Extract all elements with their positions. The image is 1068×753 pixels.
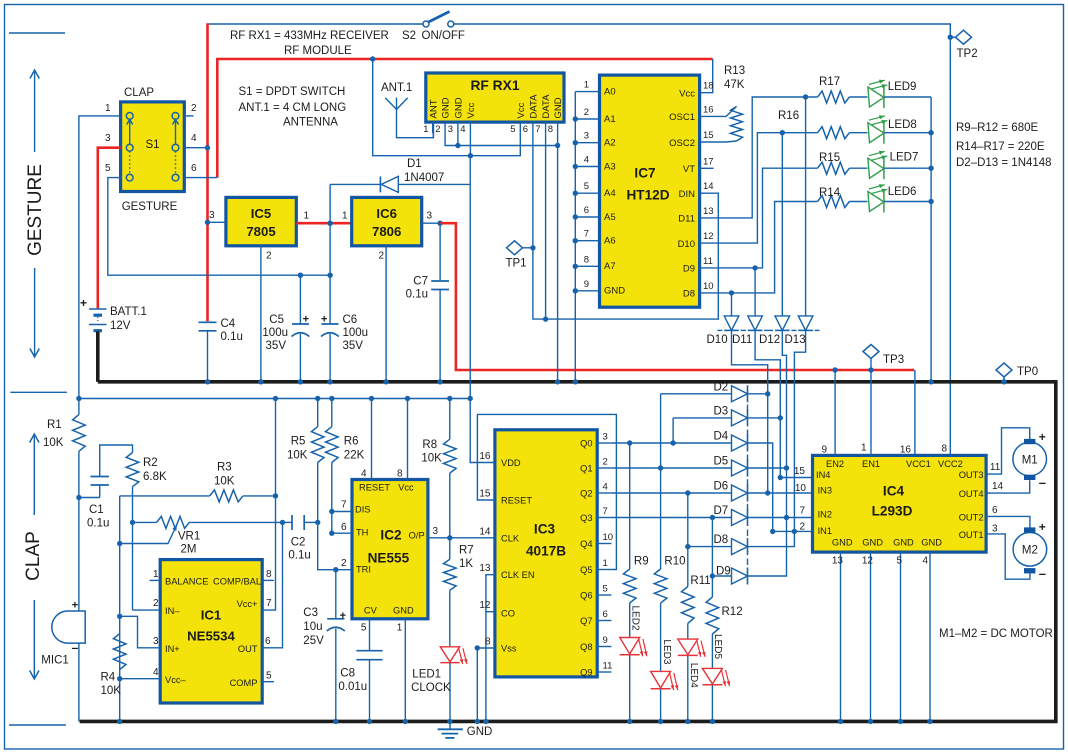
junction rail R5 bbox=[315, 396, 320, 401]
svg-text:22K: 22K bbox=[344, 450, 365, 462]
IC5 pin 3 stub bbox=[208, 221, 226, 223]
svg-text:OSC2: OSC2 bbox=[669, 138, 695, 149]
S1 pin 2 stub bbox=[184, 115, 193, 117]
svg-text:D13: D13 bbox=[785, 334, 806, 346]
IC4 gnd pin 4 bbox=[929, 552, 931, 721]
resistor R16 220E bbox=[818, 127, 850, 139]
svg-text:GESTURE: GESTURE bbox=[122, 201, 178, 213]
wire mic bottom to ground bus bbox=[78, 643, 80, 721]
svg-text:D2: D2 bbox=[714, 381, 729, 393]
svg-text:O/P: O/P bbox=[409, 531, 425, 541]
svg-text:ANTENNA: ANTENNA bbox=[283, 117, 338, 129]
junction D12 column top bbox=[780, 130, 785, 135]
svg-text:7806: 7806 bbox=[372, 224, 401, 239]
junction LED bus on black line bbox=[928, 379, 933, 384]
clap down arrow bbox=[33, 600, 35, 677]
LED3 red bbox=[651, 671, 671, 688]
svg-text:RESET: RESET bbox=[359, 482, 390, 492]
svg-text:R5: R5 bbox=[291, 436, 306, 448]
svg-text:A5: A5 bbox=[604, 212, 616, 223]
svg-text:11: 11 bbox=[990, 462, 1001, 473]
svg-text:7805: 7805 bbox=[246, 224, 275, 239]
svg-text:10: 10 bbox=[795, 483, 807, 494]
junction IC6 pin2 ground bbox=[383, 379, 388, 384]
wire DATA pin6 down to TP1 corner bbox=[533, 133, 718, 319]
clap up arrow bbox=[33, 436, 35, 515]
svg-text:2: 2 bbox=[266, 251, 272, 262]
junction D9 feed bbox=[710, 573, 715, 578]
IC2 pin 5 CV / capacitor C8 0.01u bbox=[369, 619, 371, 651]
svg-text:R15: R15 bbox=[819, 152, 840, 164]
svg-text:C2: C2 bbox=[291, 537, 306, 549]
diode D13 1N4148 bbox=[805, 97, 807, 316]
svg-text:7: 7 bbox=[603, 506, 608, 517]
svg-text:VR1: VR1 bbox=[178, 531, 200, 543]
wire LED cathode bus to black line bbox=[930, 97, 932, 382]
wire RF RX1 Vcc bus pins 4-5 bbox=[469, 133, 471, 156]
S1 pin 1 wire to lower rail bbox=[79, 116, 121, 399]
svg-text:GND: GND bbox=[393, 605, 414, 615]
svg-text:2: 2 bbox=[603, 457, 608, 468]
svg-text:LED3: LED3 bbox=[661, 639, 672, 664]
svg-text:R1: R1 bbox=[47, 419, 62, 431]
wire D2 feed from Q1 bbox=[660, 394, 662, 468]
junction EN1 / TP3 on red rail bbox=[868, 367, 873, 372]
svg-text:4: 4 bbox=[460, 124, 465, 135]
svg-text:5: 5 bbox=[105, 163, 111, 174]
svg-text:4: 4 bbox=[361, 469, 367, 480]
svg-text:7: 7 bbox=[341, 500, 347, 511]
svg-text:IN–: IN– bbox=[165, 606, 180, 616]
junction A-bus pin 9 bbox=[573, 288, 578, 293]
dashes of D2-D9 cathode bus bbox=[747, 405, 749, 412]
svg-text:D10: D10 bbox=[707, 334, 728, 346]
svg-text:C3: C3 bbox=[303, 607, 318, 619]
svg-text:D4: D4 bbox=[714, 431, 729, 443]
junction IC6 out node bbox=[437, 221, 442, 226]
svg-text:DATA: DATA bbox=[529, 94, 540, 119]
wire Q2 row to D6 and IN3 bbox=[611, 492, 731, 494]
svg-text:C6: C6 bbox=[343, 314, 358, 326]
svg-text:L293D: L293D bbox=[872, 504, 913, 519]
svg-text:GND: GND bbox=[604, 286, 625, 297]
wire red 6V to motor rail bbox=[440, 223, 914, 370]
svg-text:10u: 10u bbox=[303, 621, 322, 633]
LED7 bbox=[849, 167, 867, 169]
svg-text:Q4: Q4 bbox=[580, 539, 592, 549]
wire HT12D Vcc to 5V rail bbox=[700, 59, 713, 93]
capacitor C5 100u 35V electrolytic bbox=[299, 275, 301, 324]
svg-text:5: 5 bbox=[603, 584, 608, 595]
svg-text:R14–R17 = 220E: R14–R17 = 220E bbox=[956, 141, 1045, 153]
svg-text:ANT.1 = 4 CM LONG: ANT.1 = 4 CM LONG bbox=[239, 102, 347, 114]
junction A-bus pin 7 bbox=[573, 238, 578, 243]
IC2 pin 3 O/P wire to CLK bbox=[428, 537, 495, 539]
svg-text:COMP/BAL: COMP/BAL bbox=[213, 577, 261, 587]
svg-text:2: 2 bbox=[191, 103, 197, 114]
capacitor C1 0.1u bbox=[79, 497, 100, 499]
svg-text:COMP: COMP bbox=[230, 678, 258, 688]
IC1 pin 8 stub bbox=[262, 579, 274, 581]
svg-text:GND: GND bbox=[921, 537, 942, 547]
wire S2 to right edge and down to IC4 VCC2 bbox=[454, 24, 951, 455]
junction Q2 / R11 column bbox=[685, 490, 690, 495]
svg-text:10: 10 bbox=[603, 532, 614, 543]
wire R3/feedback column down to wiper node bbox=[119, 496, 121, 722]
junction LED3 ground bbox=[658, 719, 663, 724]
svg-text:A4: A4 bbox=[604, 188, 616, 199]
LED2 red bbox=[620, 638, 640, 655]
junction rail IC2 pin8 bbox=[405, 396, 410, 401]
svg-text:4017B: 4017B bbox=[526, 544, 566, 559]
svg-text:1: 1 bbox=[153, 569, 159, 580]
svg-text:4: 4 bbox=[922, 556, 928, 567]
svg-text:6: 6 bbox=[265, 636, 271, 647]
separator line bottom-left bbox=[9, 724, 66, 726]
svg-text:D5: D5 bbox=[714, 456, 729, 468]
IC5 pin 1 red link to IC6 bbox=[296, 222, 351, 225]
IC2 pin 4 wire to rail bbox=[371, 399, 373, 480]
wire RF RX1 Vcc bus to 5V rail bbox=[373, 59, 471, 156]
svg-text:1: 1 bbox=[105, 103, 111, 114]
LED8 bbox=[849, 132, 867, 134]
junction LED7 on bus bbox=[928, 166, 933, 171]
battery negative thick black wire bbox=[96, 332, 100, 382]
svg-text:14: 14 bbox=[479, 526, 491, 537]
junction D5 column on IN2 row bbox=[784, 515, 789, 520]
svg-text:15: 15 bbox=[703, 130, 714, 141]
diode D4 1N4148 bbox=[732, 435, 748, 451]
LED6 bbox=[849, 201, 867, 203]
svg-text:BATT.1: BATT.1 bbox=[110, 306, 147, 318]
svg-text:A1: A1 bbox=[604, 114, 616, 125]
capacitor C4 0.1u bbox=[199, 321, 217, 323]
svg-text:LED9: LED9 bbox=[888, 81, 917, 93]
IC2 pin 1 GND wire bbox=[404, 619, 406, 722]
svg-text:R13: R13 bbox=[724, 65, 745, 77]
diode D6 1N4148 bbox=[732, 485, 748, 501]
S1 pin 4 wire to 12V rail bbox=[184, 147, 207, 149]
IC4 gnd pin 13 bbox=[840, 552, 842, 721]
svg-text:–: – bbox=[1039, 566, 1046, 581]
wire address bus to ground bbox=[574, 92, 576, 382]
diode D11 1N4148 bbox=[754, 268, 756, 316]
resistor R8 10K bbox=[449, 399, 451, 440]
svg-text:R3: R3 bbox=[217, 462, 232, 474]
svg-text:14: 14 bbox=[703, 181, 714, 192]
svg-text:8: 8 bbox=[397, 469, 403, 480]
gesture up arrow bbox=[34, 72, 36, 152]
HT12D pin 12 D10 wire to LED8 row bbox=[700, 133, 818, 243]
svg-text:R4: R4 bbox=[101, 672, 116, 684]
svg-text:3: 3 bbox=[433, 526, 439, 537]
junction R5/C2 node bbox=[315, 520, 320, 525]
resistor R2 6.8K bbox=[126, 453, 139, 487]
junction D5 / IN2 column bbox=[784, 465, 789, 470]
wire Q3 row to D7 and IN2 bbox=[611, 517, 731, 519]
svg-text:ANT.1: ANT.1 bbox=[381, 82, 412, 94]
IC4 pin 3 OUT1 wire to M2- bbox=[986, 534, 1030, 579]
potentiometer VR1 2M bbox=[133, 521, 157, 523]
S1 left throw arrow bbox=[129, 121, 131, 145]
svg-text:2: 2 bbox=[341, 558, 347, 569]
svg-text:IC3: IC3 bbox=[534, 522, 556, 537]
svg-text:D6: D6 bbox=[714, 481, 729, 493]
svg-text:+: + bbox=[303, 314, 309, 326]
svg-text:IC7: IC7 bbox=[634, 166, 655, 181]
svg-text:A0: A0 bbox=[604, 86, 616, 97]
junction S1 pin4 / 12V rail bbox=[205, 145, 210, 150]
svg-text:A3: A3 bbox=[604, 161, 616, 172]
svg-text:C4: C4 bbox=[221, 318, 236, 330]
svg-text:Q3: Q3 bbox=[580, 513, 592, 523]
svg-text:C1: C1 bbox=[89, 504, 104, 516]
wire D3 feed from Q0 bbox=[672, 418, 674, 443]
IC1 pin 7 Vcc+ wire to rail riser bbox=[262, 496, 275, 610]
svg-text:Q7: Q7 bbox=[580, 616, 592, 626]
separator line mid-left bbox=[10, 391, 67, 393]
svg-text:0.1u: 0.1u bbox=[87, 518, 109, 530]
svg-text:12: 12 bbox=[703, 231, 714, 242]
svg-text:3: 3 bbox=[153, 636, 159, 647]
junction TP0 on black bus bbox=[1001, 379, 1006, 384]
junction Vcc bus / VDD column bbox=[468, 153, 473, 158]
junction on 5V rail / Vcc bus bbox=[370, 56, 375, 61]
junction R4 on ground bus bbox=[117, 719, 122, 724]
svg-text:12: 12 bbox=[479, 600, 491, 611]
svg-text:S1 = DPDT SWITCH: S1 = DPDT SWITCH bbox=[239, 86, 346, 98]
LED1 CLOCK red bbox=[440, 647, 459, 662]
test point TP1 bbox=[507, 241, 523, 255]
IC6 pin 3 stub bbox=[422, 222, 440, 224]
wire IC1 pin2 from R2 column bbox=[133, 609, 161, 611]
svg-text:35V: 35V bbox=[343, 340, 364, 352]
svg-text:CV: CV bbox=[364, 605, 378, 615]
IC3 pin 15 RESET wire from Q5 bbox=[477, 414, 616, 569]
svg-text:6: 6 bbox=[523, 124, 528, 135]
svg-text:GESTURE: GESTURE bbox=[25, 164, 46, 256]
wire Q1 row to D5 bbox=[611, 467, 731, 469]
svg-text:13: 13 bbox=[703, 206, 714, 217]
svg-text:5: 5 bbox=[266, 671, 272, 682]
svg-text:16: 16 bbox=[900, 445, 912, 456]
S1 pin 5 wire to C5/C6 top rail bbox=[108, 178, 330, 276]
svg-text:OUT4: OUT4 bbox=[959, 489, 984, 499]
IC1 pin 1 stub bbox=[150, 579, 161, 581]
IC4 pin 11 OUT3 wire to M1+ bbox=[986, 428, 1030, 474]
junction LED1 ground bbox=[447, 719, 452, 724]
junction D4 column / IN1 bbox=[770, 529, 775, 534]
svg-text:+: + bbox=[1039, 520, 1046, 534]
svg-text:R8: R8 bbox=[422, 439, 437, 451]
svg-text:ON/OFF: ON/OFF bbox=[422, 30, 465, 42]
svg-text:D10: D10 bbox=[678, 239, 695, 250]
svg-text:1: 1 bbox=[397, 623, 403, 634]
svg-text:4: 4 bbox=[191, 133, 197, 144]
svg-text:6: 6 bbox=[341, 522, 347, 533]
svg-text:Q1: Q1 bbox=[580, 464, 592, 474]
test point TP2 bbox=[950, 36, 956, 38]
svg-text:IC1: IC1 bbox=[201, 608, 222, 623]
junction LED4 ground bbox=[685, 719, 690, 724]
junction D10 column on pin10 wire bbox=[729, 290, 734, 295]
svg-text:LED6: LED6 bbox=[888, 186, 917, 198]
wire D5 column IN2 to D9 bbox=[748, 468, 787, 576]
svg-text:D3: D3 bbox=[714, 405, 729, 417]
svg-text:1: 1 bbox=[304, 211, 310, 222]
svg-text:D9: D9 bbox=[683, 264, 695, 275]
junction Q0 / R9 bbox=[627, 440, 632, 445]
junction A-bus pin 6 bbox=[573, 214, 578, 219]
microphone MIC1 bbox=[52, 611, 85, 643]
svg-text:Q9: Q9 bbox=[580, 668, 592, 678]
IC4 pin 14 OUT4 wire to M1- bbox=[986, 480, 1030, 493]
svg-text:3: 3 bbox=[448, 124, 453, 135]
junction A-bus pin 5 bbox=[573, 191, 578, 196]
junction EN2 on red rail bbox=[832, 367, 837, 372]
junction TH corner bbox=[329, 531, 334, 536]
svg-text:CO: CO bbox=[501, 609, 515, 619]
separator line top-left bbox=[9, 32, 65, 34]
svg-text:9: 9 bbox=[584, 279, 589, 290]
svg-text:M2: M2 bbox=[1022, 545, 1038, 557]
junction wiper on feedback column bbox=[117, 541, 122, 546]
test point TP0 bbox=[996, 363, 1012, 377]
svg-text:7: 7 bbox=[584, 229, 589, 240]
battery BATT.1 12V bbox=[89, 308, 107, 310]
junction LED5 ground bbox=[710, 719, 715, 724]
wire red 5V rail (IC5 out) top bbox=[217, 59, 712, 178]
resistor R3 10K bbox=[120, 495, 210, 497]
svg-text:3: 3 bbox=[992, 524, 998, 535]
IC1 pin 3 wire from R4 node bbox=[120, 616, 161, 648]
junction LED8 on bus bbox=[928, 130, 933, 135]
wire Q0 row to D4 bbox=[611, 442, 731, 444]
junction rail VDD column bbox=[468, 396, 473, 401]
svg-text:DIN: DIN bbox=[679, 189, 696, 200]
svg-text:+: + bbox=[80, 296, 87, 310]
decoder IC7 HT12D bbox=[600, 75, 700, 307]
junction R2 / VR1 left bbox=[130, 520, 135, 525]
svg-text:1: 1 bbox=[603, 558, 608, 569]
svg-text:IN3: IN3 bbox=[818, 485, 832, 495]
svg-text:6: 6 bbox=[992, 505, 998, 516]
svg-text:Vss: Vss bbox=[501, 644, 517, 654]
svg-text:ANT: ANT bbox=[428, 99, 439, 118]
svg-text:6: 6 bbox=[603, 609, 608, 620]
IC4 pin 1 EN1 wire bbox=[870, 370, 872, 455]
svg-text:11: 11 bbox=[603, 661, 613, 672]
wire VDD column (RFRX Vcc / D1 / IC3 VDD) bbox=[470, 156, 495, 463]
wire IN1 row bbox=[773, 530, 813, 532]
junction D2 cathode corner bbox=[765, 391, 770, 396]
IC1 pin 4 wire from R4 bottom bbox=[120, 678, 161, 680]
svg-text:Q6: Q6 bbox=[580, 591, 592, 601]
switch S1 box bbox=[121, 102, 185, 192]
svg-text:GND: GND bbox=[553, 97, 564, 118]
svg-text:4: 4 bbox=[153, 667, 159, 678]
junction C6 top rail bbox=[327, 273, 332, 278]
junction IC5 in / 12V rail bbox=[205, 220, 210, 225]
svg-text:NE5534: NE5534 bbox=[187, 629, 235, 644]
dashes between D10-D13 bars bbox=[718, 329, 723, 331]
svg-text:CLAP: CLAP bbox=[23, 531, 44, 581]
svg-text:C5: C5 bbox=[269, 314, 284, 326]
svg-text:8: 8 bbox=[266, 569, 272, 580]
svg-text:10: 10 bbox=[703, 281, 714, 292]
diode D12 1N4148 bbox=[781, 133, 783, 316]
svg-text:10K: 10K bbox=[43, 437, 64, 449]
wire RF RX1 pin1 to antenna bbox=[432, 122, 434, 138]
svg-text:NE555: NE555 bbox=[368, 550, 410, 565]
svg-text:3: 3 bbox=[209, 210, 215, 221]
VR1 wiper arrow bbox=[120, 527, 176, 544]
svg-text:Vcc–: Vcc– bbox=[165, 675, 186, 685]
resistor R14 220E bbox=[818, 196, 850, 208]
svg-text:0.01u: 0.01u bbox=[338, 681, 367, 693]
wire 9V rail of clap section bbox=[79, 398, 470, 400]
svg-text:13: 13 bbox=[479, 563, 491, 574]
svg-text:EN1: EN1 bbox=[862, 459, 880, 469]
junction A-bus pin 8 bbox=[573, 264, 578, 269]
IC1 pin 5 stub bbox=[262, 681, 274, 683]
resistor R12 680E bbox=[711, 518, 713, 598]
svg-text:Q2: Q2 bbox=[580, 489, 592, 499]
svg-text:1N4007: 1N4007 bbox=[404, 172, 444, 184]
svg-text:10K: 10K bbox=[214, 476, 235, 488]
junction Vss corner bbox=[475, 645, 480, 650]
junction Vss ground bbox=[475, 719, 480, 724]
junction LED2 ground bbox=[627, 719, 632, 724]
junction A-bus pin 3 bbox=[573, 140, 578, 145]
svg-text:+: + bbox=[1039, 430, 1046, 444]
svg-text:Vcc+: Vcc+ bbox=[237, 599, 258, 609]
junction R1 bottom / C1 bbox=[76, 495, 81, 500]
svg-text:2: 2 bbox=[153, 598, 159, 609]
svg-text:1K: 1K bbox=[459, 558, 473, 570]
S1 pin 3 red wire to battery bbox=[98, 148, 121, 309]
antenna ANT.1 bbox=[397, 109, 434, 137]
svg-text:D8: D8 bbox=[714, 534, 729, 546]
wire D2 column to IN3 bbox=[767, 394, 769, 493]
svg-text:+: + bbox=[72, 600, 78, 612]
svg-text:5: 5 bbox=[510, 124, 515, 135]
svg-text:D7: D7 bbox=[714, 505, 729, 517]
svg-text:DATA: DATA bbox=[541, 94, 552, 119]
svg-text:3: 3 bbox=[427, 211, 433, 222]
svg-text:IN+: IN+ bbox=[165, 644, 180, 654]
svg-text:S2: S2 bbox=[402, 30, 416, 42]
svg-text:Q0: Q0 bbox=[580, 439, 592, 449]
svg-text:HT12D: HT12D bbox=[626, 188, 669, 203]
svg-text:VCC1: VCC1 bbox=[906, 459, 931, 469]
svg-text:CLAP: CLAP bbox=[124, 87, 154, 99]
svg-text:IC2: IC2 bbox=[380, 528, 402, 543]
svg-text:GND: GND bbox=[832, 537, 853, 547]
svg-text:5: 5 bbox=[896, 556, 902, 567]
junction rail left / R1 bbox=[76, 396, 81, 401]
regulator IC6 7806 bbox=[352, 197, 422, 245]
junction C3 ground bbox=[333, 719, 338, 724]
diode D5 1N4148 bbox=[732, 460, 748, 476]
black top bus line of CLAP section bbox=[98, 382, 1056, 722]
svg-text:0.1u: 0.1u bbox=[406, 289, 428, 301]
svg-text:VCC2: VCC2 bbox=[938, 459, 963, 469]
svg-text:OUT2: OUT2 bbox=[959, 512, 984, 522]
svg-text:R9–R12 = 680E: R9–R12 = 680E bbox=[956, 122, 1038, 134]
svg-text:2: 2 bbox=[435, 124, 440, 135]
svg-text:A7: A7 bbox=[604, 261, 616, 272]
